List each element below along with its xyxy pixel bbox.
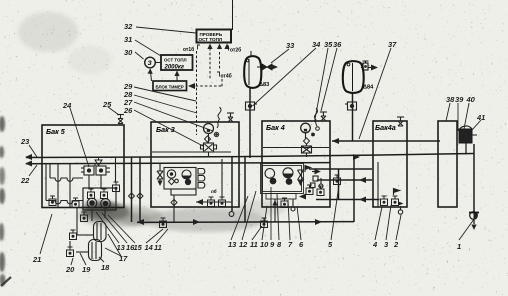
svg-text:10: 10: [260, 240, 269, 249]
svg-text:30: 30: [124, 48, 133, 57]
svg-text:ОСТ ТОПЛ: ОСТ ТОПЛ: [199, 37, 223, 42]
svg-text:21: 21: [32, 255, 41, 264]
svg-text:20: 20: [65, 265, 75, 274]
svg-text:37: 37: [388, 40, 397, 49]
svg-text:15: 15: [134, 243, 143, 252]
svg-text:Δ83: Δ83: [259, 82, 269, 88]
svg-text:19: 19: [82, 265, 91, 274]
svg-text:25: 25: [102, 100, 112, 109]
svg-text:Бак 4: Бак 4: [266, 123, 285, 132]
svg-text:2000кг: 2000кг: [164, 65, 185, 71]
svg-text:35: 35: [324, 40, 333, 49]
svg-text:26: 26: [123, 106, 133, 115]
svg-text:18: 18: [101, 263, 110, 272]
svg-text:БЛОК ТИМЕР: БЛОК ТИМЕР: [156, 85, 184, 90]
svg-text:1: 1: [457, 242, 461, 251]
svg-text:23: 23: [20, 137, 30, 146]
svg-text:Δ84: Δ84: [363, 85, 374, 91]
svg-text:ОСТ ТОПЛ: ОСТ ТОПЛ: [164, 58, 187, 63]
svg-text:от4б: от4б: [221, 73, 232, 80]
svg-text:32: 32: [124, 22, 133, 31]
svg-text:12: 12: [239, 240, 248, 249]
svg-text:34: 34: [312, 40, 321, 49]
svg-text:22: 22: [20, 176, 30, 185]
svg-text:14: 14: [145, 243, 154, 252]
svg-text:11: 11: [154, 243, 162, 252]
svg-text:31: 31: [124, 35, 132, 44]
svg-text:11: 11: [250, 240, 258, 249]
svg-text:2: 2: [393, 240, 399, 249]
svg-text:пб: пб: [211, 188, 217, 194]
svg-text:Бак 5: Бак 5: [46, 127, 66, 136]
svg-text:39: 39: [455, 95, 464, 104]
svg-text:от1б: от1б: [183, 46, 194, 53]
svg-text:4: 4: [372, 240, 378, 249]
svg-text:Бак4а: Бак4а: [375, 123, 396, 132]
svg-text:38: 38: [446, 95, 455, 104]
svg-text:36: 36: [333, 40, 342, 49]
svg-text:33: 33: [286, 41, 295, 50]
svg-text:40: 40: [466, 95, 476, 104]
svg-text:от2б: от2б: [230, 47, 241, 54]
svg-text:13: 13: [228, 240, 237, 249]
